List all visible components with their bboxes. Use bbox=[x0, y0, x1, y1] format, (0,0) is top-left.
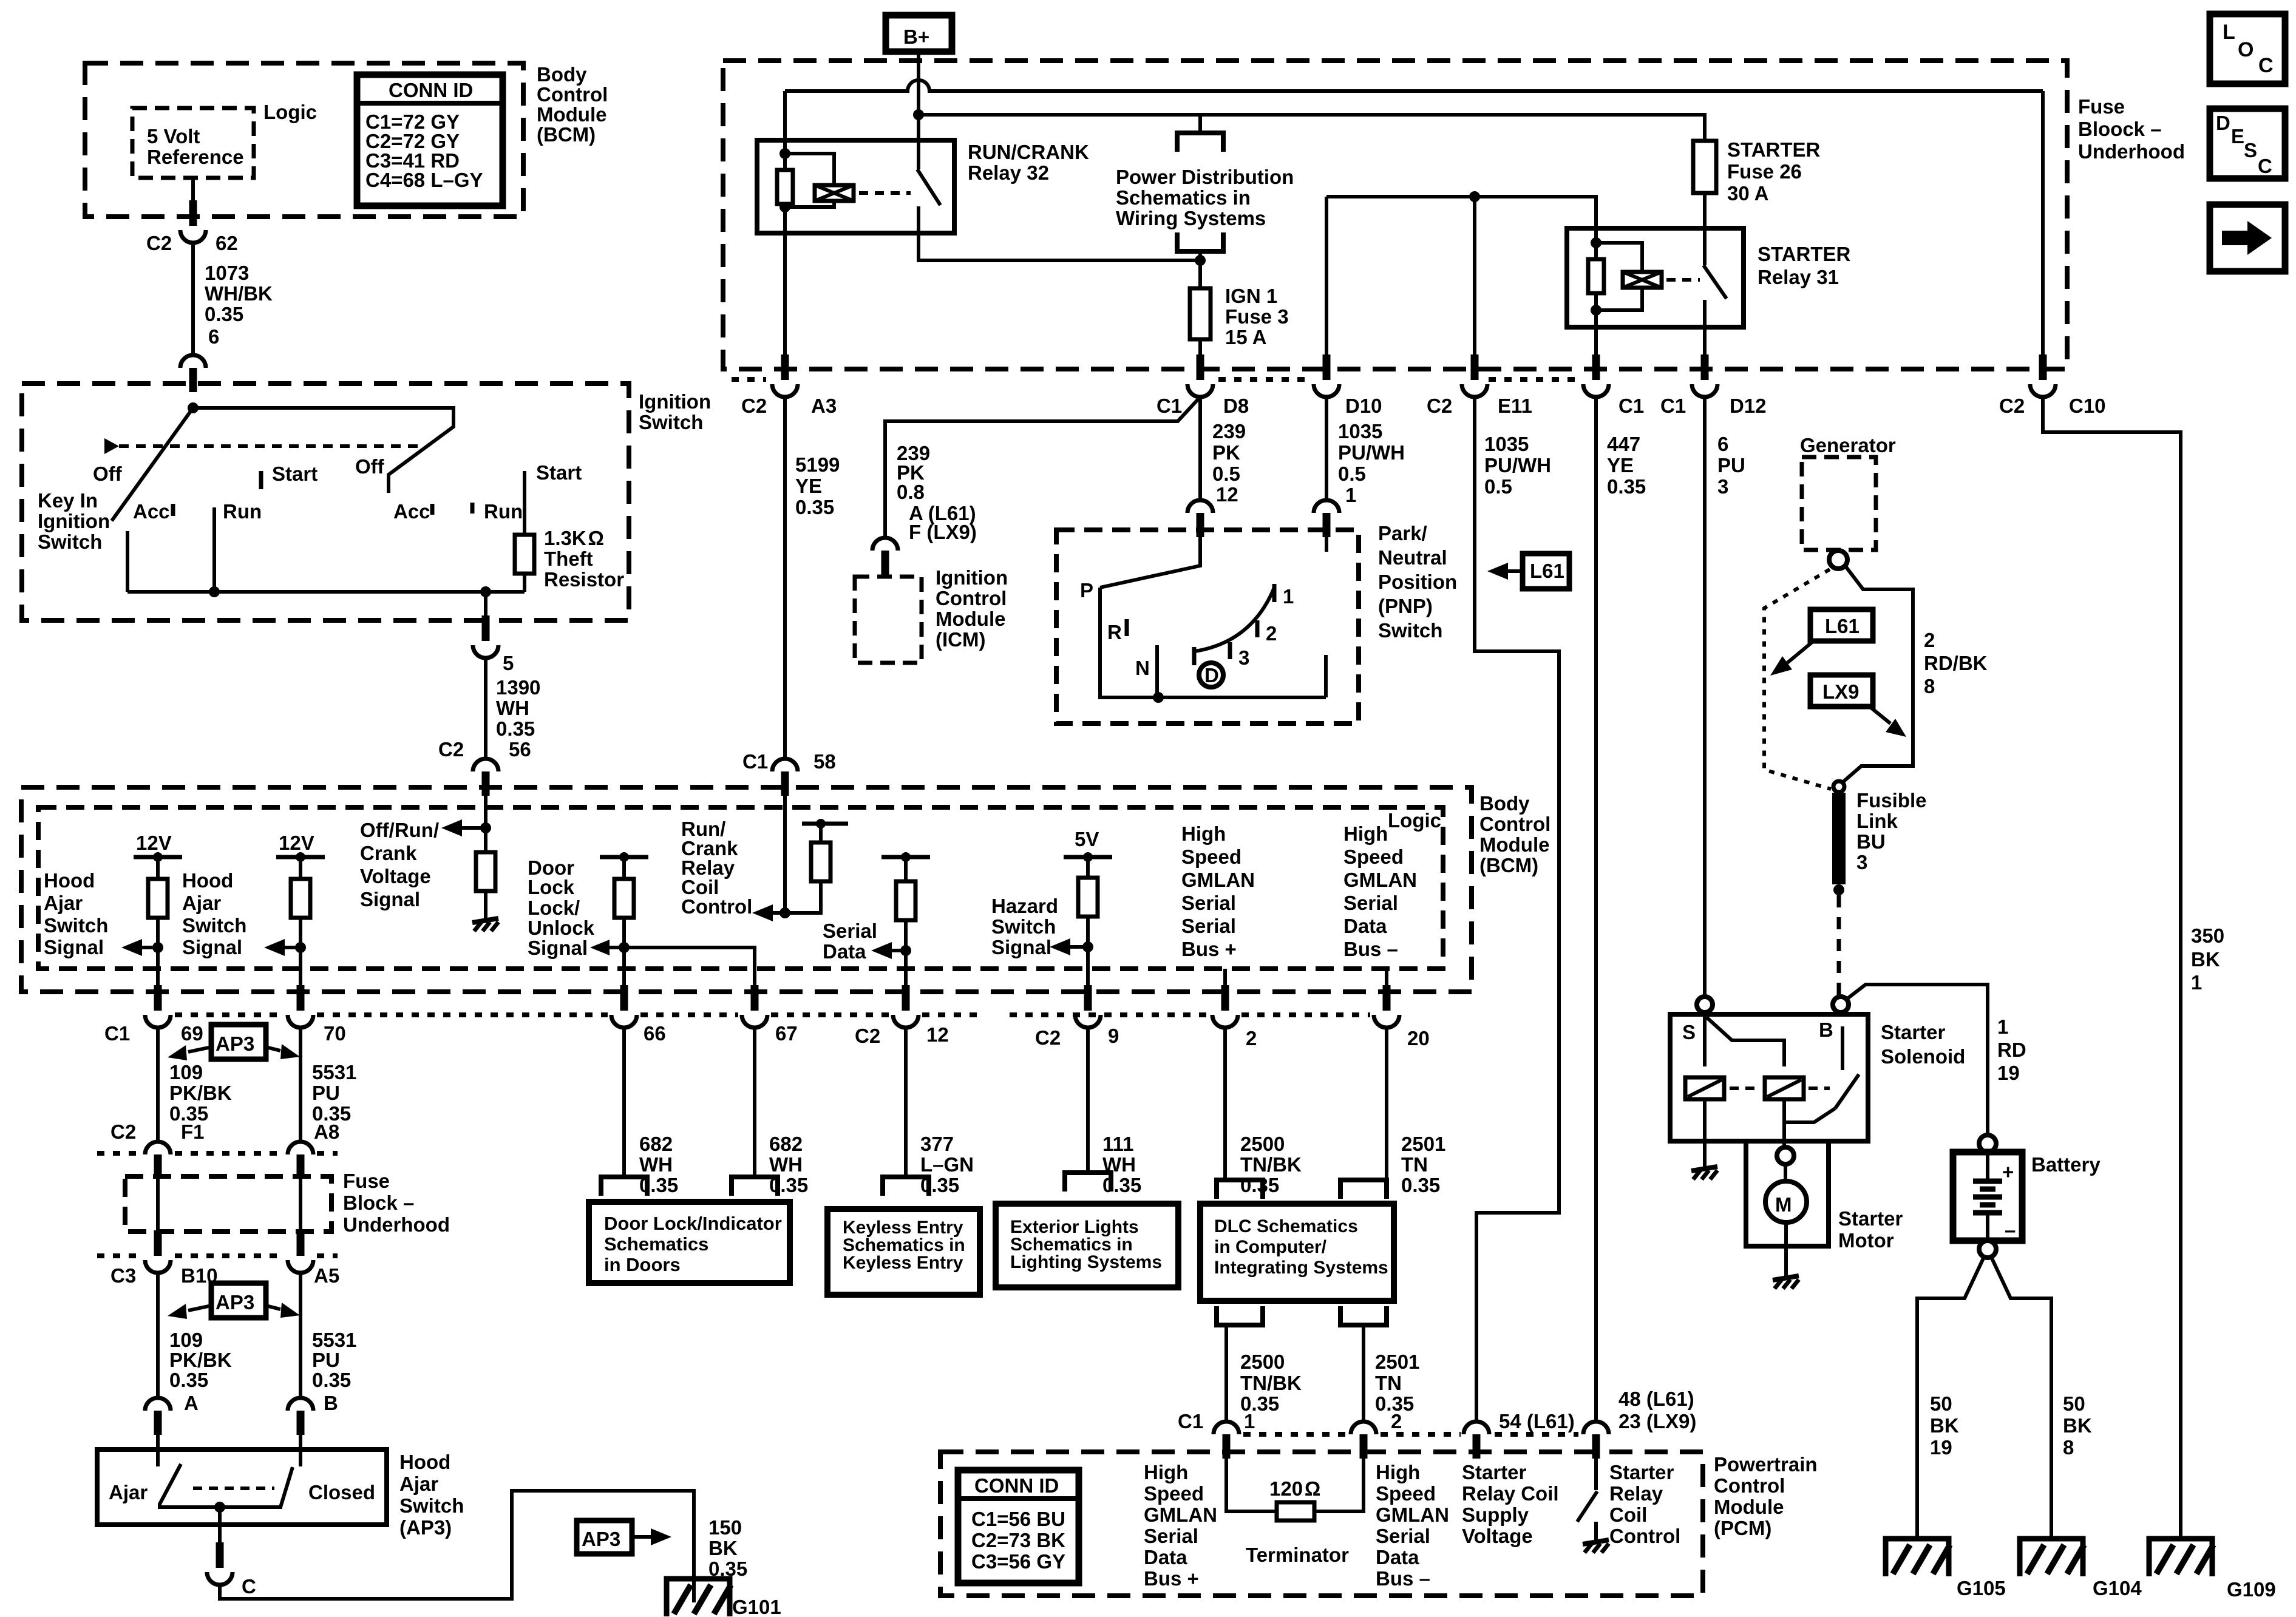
switch blade bbox=[1577, 1491, 1597, 1522]
connector pin B bbox=[288, 1398, 313, 1435]
svg-text:Switch: Switch bbox=[639, 411, 703, 433]
svg-text:8: 8 bbox=[1924, 675, 1935, 697]
node B+ / IGN feed junction bbox=[913, 109, 924, 120]
svg-text:D10: D10 bbox=[1345, 395, 1382, 417]
svg-text:PK/BK: PK/BK bbox=[169, 1349, 232, 1371]
svg-text:0.35: 0.35 bbox=[795, 496, 834, 518]
coil ground wire bbox=[1703, 1099, 1707, 1167]
svg-text:F1: F1 bbox=[181, 1120, 205, 1143]
svg-text:A5: A5 bbox=[314, 1264, 339, 1287]
svg-text:54 (L61): 54 (L61) bbox=[1499, 1410, 1575, 1432]
svg-text:Control: Control bbox=[537, 83, 608, 106]
svg-text:Ajar: Ajar bbox=[399, 1473, 438, 1495]
svg-text:D: D bbox=[2216, 112, 2230, 134]
svg-text:0.5: 0.5 bbox=[1212, 463, 1240, 485]
svg-text:Door Lock/Indicator: Door Lock/Indicator bbox=[604, 1213, 782, 1234]
serial data arrow bbox=[871, 942, 906, 959]
key-in switch blade bbox=[112, 408, 193, 521]
wire relay32 coil to A3 bbox=[783, 233, 787, 364]
svg-text:PU: PU bbox=[312, 1349, 340, 1371]
High Speed GMLAN Serial Serial Bus + label bbox=[1181, 822, 1255, 960]
svg-text:C2=73 BK: C2=73 BK bbox=[971, 1529, 1065, 1551]
svg-text:0.35: 0.35 bbox=[1240, 1174, 1279, 1196]
solenoid ground bbox=[1691, 1167, 1717, 1179]
hood ajar pullup resistor 2 bbox=[299, 857, 302, 879]
svg-text:L61: L61 bbox=[1825, 615, 1860, 637]
BCM dashed box bbox=[85, 63, 523, 217]
svg-text:Coil: Coil bbox=[1609, 1503, 1647, 1526]
svg-text:3: 3 bbox=[1238, 646, 1249, 669]
svg-text:A: A bbox=[184, 1392, 199, 1414]
svg-text:E11: E11 bbox=[1498, 395, 1532, 417]
receptacle 66 bbox=[601, 1177, 647, 1196]
svg-text:N: N bbox=[1135, 657, 1150, 679]
connector row dotted lines bbox=[732, 377, 766, 382]
battery positive terminal bbox=[1979, 1135, 1996, 1152]
svg-text:19: 19 bbox=[1997, 1062, 2020, 1084]
svg-text:66: 66 bbox=[644, 1022, 666, 1045]
svg-text:6: 6 bbox=[1717, 433, 1728, 455]
relay31 coil wire bbox=[1594, 228, 1598, 327]
svg-text:9: 9 bbox=[1108, 1025, 1119, 1047]
svg-text:C1: C1 bbox=[1178, 1410, 1203, 1432]
wire 5V reference to connector C2 bbox=[191, 178, 195, 202]
svg-text:G104: G104 bbox=[2093, 1577, 2142, 1599]
svg-text:C2: C2 bbox=[1035, 1026, 1061, 1049]
wire relay31 coil to C1 bbox=[1594, 327, 1598, 364]
svg-text:Schematics: Schematics bbox=[604, 1233, 708, 1255]
battery box bbox=[1953, 1152, 2022, 1241]
svg-text:58: 58 bbox=[813, 750, 836, 773]
svg-text:–: – bbox=[2005, 1219, 2016, 1241]
receptacle 2501 lower bbox=[1340, 1306, 1387, 1325]
svg-text:109: 109 bbox=[169, 1061, 203, 1083]
svg-text:12V: 12V bbox=[136, 832, 172, 854]
svg-text:1: 1 bbox=[1997, 1015, 2008, 1038]
svg-text:High: High bbox=[1144, 1461, 1188, 1483]
svg-text:Logic: Logic bbox=[263, 101, 317, 123]
svg-text:Hood: Hood bbox=[44, 869, 95, 892]
svg-text:STARTER: STARTER bbox=[1727, 138, 1821, 161]
svg-text:BK: BK bbox=[2063, 1414, 2092, 1437]
connector C2 pin E11 bbox=[1462, 354, 1487, 397]
wire relay31 coil supply bus bbox=[1326, 197, 1596, 228]
svg-text:2500: 2500 bbox=[1240, 1351, 1285, 1373]
svg-text:Data: Data bbox=[1376, 1546, 1419, 1568]
wire 2500 TN/BK upper bbox=[1223, 1028, 1227, 1180]
svg-text:Serial: Serial bbox=[1181, 892, 1236, 914]
svg-text:Lighting Systems: Lighting Systems bbox=[1010, 1252, 1162, 1272]
generator dashed box bbox=[1802, 457, 1876, 550]
svg-text:C: C bbox=[2258, 155, 2272, 177]
svg-text:Battery: Battery bbox=[2031, 1153, 2101, 1176]
svg-text:Switch: Switch bbox=[182, 914, 246, 937]
svg-text:Module: Module bbox=[537, 103, 606, 126]
ignition switch dashed box bbox=[22, 384, 629, 620]
svg-text:Serial: Serial bbox=[1376, 1525, 1430, 1547]
run/crank relay coil control arrow bbox=[752, 904, 785, 921]
AP3 splice tag 3 bbox=[577, 1520, 671, 1554]
node N junction bbox=[1153, 692, 1164, 703]
svg-text:1: 1 bbox=[2191, 971, 2202, 994]
start wire into theft resistor bbox=[523, 471, 526, 535]
svg-text:Solenoid: Solenoid bbox=[1881, 1045, 1965, 1068]
connector pin 5 bbox=[473, 615, 498, 658]
svg-text:5199: 5199 bbox=[795, 453, 840, 476]
svg-text:C10: C10 bbox=[2069, 395, 2106, 417]
C3/B10 connector row bbox=[97, 1253, 142, 1258]
wire C10 feed corner bbox=[2041, 91, 2045, 364]
svg-text:(AP3): (AP3) bbox=[399, 1516, 452, 1539]
S terminal bbox=[1697, 997, 1713, 1012]
svg-text:Ignition: Ignition bbox=[38, 510, 110, 532]
bus+ wire bbox=[1223, 969, 1227, 991]
AP3 arrow left 1 bbox=[168, 1045, 211, 1060]
svg-text:Switch: Switch bbox=[399, 1494, 464, 1517]
D10 contact stub bbox=[1325, 537, 1328, 552]
connector pin A5 bbox=[288, 1230, 313, 1273]
svg-text:682: 682 bbox=[639, 1133, 673, 1155]
svg-text:WH: WH bbox=[769, 1153, 803, 1176]
svg-text:1035: 1035 bbox=[1338, 420, 1382, 442]
wire D10 feed inside fuse block bbox=[1325, 197, 1328, 364]
door lock signal arrow bbox=[590, 940, 624, 955]
C2/F1 connector row bbox=[97, 1151, 142, 1156]
ground G105 bbox=[1886, 1539, 1950, 1576]
svg-text:5: 5 bbox=[503, 652, 514, 674]
relay31 switch contact bbox=[1703, 228, 1707, 265]
svg-text:Starter: Starter bbox=[1462, 1461, 1527, 1483]
wire generator bus with hop over B+ bbox=[785, 80, 2043, 91]
svg-text:C2: C2 bbox=[1999, 395, 2025, 417]
CONN ID table (BCM) bbox=[357, 75, 503, 206]
12V source 2 bbox=[276, 832, 325, 862]
svg-text:2: 2 bbox=[1924, 629, 1935, 651]
svg-text:5 Volt: 5 Volt bbox=[147, 125, 200, 147]
High Speed GMLAN Serial Data Bus - label bbox=[1343, 822, 1417, 960]
svg-text:Unlock: Unlock bbox=[528, 917, 595, 939]
off/run/crank ground bbox=[472, 918, 498, 931]
PCM connector row dotted bbox=[1243, 1432, 1348, 1437]
svg-text:Powertrain: Powertrain bbox=[1714, 1453, 1818, 1476]
svg-text:Crank: Crank bbox=[360, 842, 417, 864]
svg-text:Signal: Signal bbox=[182, 936, 242, 958]
svg-text:Ajar: Ajar bbox=[109, 1481, 148, 1503]
wire 2501 TN 0.35 lower bbox=[1362, 1325, 1365, 1422]
svg-text:0.35: 0.35 bbox=[496, 717, 535, 740]
svg-text:Theft: Theft bbox=[544, 547, 593, 570]
svg-text:69: 69 bbox=[181, 1022, 203, 1045]
Starter Relay Coil Supply Voltage label bbox=[1462, 1461, 1559, 1547]
svg-text:TN: TN bbox=[1401, 1153, 1428, 1176]
PCM dashed box bbox=[940, 1452, 1703, 1596]
Off/Run/Crank Voltage Signal label bbox=[360, 819, 439, 910]
svg-text:C1: C1 bbox=[1156, 395, 1182, 417]
svg-text:Speed: Speed bbox=[1181, 846, 1241, 868]
wire 447 YE 0.35 (relay31 coil to PCM 48/23) bbox=[1594, 397, 1598, 1422]
AP3 arrow left 2 bbox=[168, 1304, 211, 1319]
wire relay32 coil feed corner bbox=[783, 91, 787, 140]
svg-text:2: 2 bbox=[1246, 1027, 1257, 1049]
svg-text:Ajar: Ajar bbox=[182, 892, 221, 914]
svg-text:Signal: Signal bbox=[528, 937, 588, 959]
hood switch blade ajar bbox=[160, 1464, 282, 1507]
svg-text:(PNP): (PNP) bbox=[1378, 595, 1433, 617]
svg-text:Voltage: Voltage bbox=[1462, 1525, 1533, 1547]
svg-text:Control: Control bbox=[1609, 1525, 1680, 1547]
connector C2 pin 62 bbox=[180, 200, 206, 243]
svg-text:RUN/CRANK: RUN/CRANK bbox=[968, 141, 1089, 163]
svg-text:0.35: 0.35 bbox=[1607, 475, 1646, 498]
svg-text:Ignition: Ignition bbox=[639, 390, 711, 413]
Ignition Control Module (ICM) dashed box bbox=[855, 577, 922, 663]
svg-text:STARTER: STARTER bbox=[1758, 243, 1851, 265]
svg-text:Speed: Speed bbox=[1144, 1482, 1204, 1505]
selector arc bbox=[1195, 588, 1274, 651]
svg-text:AP3: AP3 bbox=[216, 1291, 254, 1314]
svg-text:C: C bbox=[2258, 54, 2274, 77]
svg-text:C1=56 BU: C1=56 BU bbox=[971, 1508, 1065, 1530]
svg-text:0.8: 0.8 bbox=[897, 481, 925, 503]
svg-text:Fuse 3: Fuse 3 bbox=[1225, 305, 1289, 328]
svg-text:GMLAN: GMLAN bbox=[1376, 1503, 1449, 1526]
relay32 coil resistor bbox=[777, 170, 793, 204]
wire pin12 to P contact bbox=[1100, 537, 1200, 588]
wire 1 RD 19 (B to battery) bbox=[1847, 985, 1988, 1135]
wire 50 BK 19 bbox=[1930, 1392, 1959, 1459]
connector C2 pin C10 bbox=[2030, 354, 2056, 397]
wire 109 PK/BK 0.35 lower bbox=[156, 1273, 160, 1398]
wire 2501 TN upper bbox=[1385, 1028, 1388, 1180]
svg-text:0.35: 0.35 bbox=[1401, 1174, 1440, 1196]
svg-text:Body: Body bbox=[1479, 792, 1530, 815]
wire to motor contact bbox=[1782, 1099, 1786, 1147]
svg-text:2500: 2500 bbox=[1240, 1133, 1285, 1155]
svg-text:TN/BK: TN/BK bbox=[1240, 1153, 1302, 1176]
High Speed GMLAN Serial Data Bus + label (PCM) bbox=[1144, 1461, 1217, 1590]
Starter Relay Coil Control label bbox=[1609, 1461, 1680, 1547]
svg-text:62: 62 bbox=[216, 232, 238, 254]
svg-text:+: + bbox=[2002, 1161, 2014, 1183]
svg-text:109: 109 bbox=[169, 1329, 203, 1351]
N contact bbox=[1155, 645, 1159, 697]
svg-text:(BCM): (BCM) bbox=[537, 123, 596, 146]
svg-text:Resistor: Resistor bbox=[544, 568, 624, 591]
svg-text:Terminator: Terminator bbox=[1246, 1544, 1349, 1566]
5V source bbox=[1064, 828, 1112, 862]
svg-text:E: E bbox=[2231, 125, 2244, 147]
dashed wire fusible link to B bbox=[1837, 895, 1841, 996]
position tick 3 bbox=[1228, 642, 1232, 659]
svg-text:Hazard: Hazard bbox=[991, 895, 1058, 917]
Hood Ajar Switch Signal label 1 bbox=[44, 869, 108, 958]
connector pin 66 bbox=[611, 985, 637, 1028]
svg-text:2501: 2501 bbox=[1375, 1351, 1419, 1373]
ground G109 bbox=[2149, 1539, 2213, 1576]
svg-text:Wiring Systems: Wiring Systems bbox=[1116, 207, 1266, 229]
svg-text:B: B bbox=[1819, 1019, 1833, 1041]
svg-text:Reference: Reference bbox=[147, 146, 244, 168]
svg-text:70: 70 bbox=[324, 1022, 346, 1045]
svg-text:Module: Module bbox=[1479, 833, 1549, 856]
svg-text:1390: 1390 bbox=[496, 676, 540, 699]
position tick 2 bbox=[1255, 620, 1260, 637]
svg-text:120 Ω: 120 Ω bbox=[1269, 1477, 1320, 1500]
svg-text:Starter: Starter bbox=[1881, 1021, 1946, 1043]
key actuator arrow bbox=[104, 438, 119, 454]
B contact stub bbox=[1841, 1026, 1844, 1070]
node hood ajar 2 bbox=[295, 942, 306, 953]
svg-text:PK/BK: PK/BK bbox=[169, 1082, 232, 1104]
svg-text:C2: C2 bbox=[110, 1120, 136, 1143]
fusible link top node bbox=[1833, 781, 1844, 792]
svg-text:Block –: Block – bbox=[343, 1192, 414, 1214]
svg-text:CONN ID: CONN ID bbox=[974, 1474, 1059, 1497]
svg-text:Lock/: Lock/ bbox=[528, 897, 580, 919]
svg-text:B: B bbox=[324, 1392, 338, 1414]
svg-text:Off/Run/: Off/Run/ bbox=[360, 819, 439, 841]
DESC box bbox=[2210, 109, 2285, 178]
relay31 coil branch bbox=[1596, 243, 1642, 273]
wire through fuse block 1 bbox=[156, 1179, 160, 1232]
svg-text:RD/BK: RD/BK bbox=[1924, 652, 1988, 674]
svg-text:48 (L61): 48 (L61) bbox=[1618, 1388, 1694, 1410]
relay31 coil resistor bbox=[1588, 259, 1604, 293]
STARTER Relay 31 box bbox=[1567, 228, 1744, 327]
svg-text:D12: D12 bbox=[1730, 395, 1767, 417]
svg-text:Start: Start bbox=[536, 461, 582, 484]
svg-text:1: 1 bbox=[1283, 585, 1294, 608]
connector pin 20 bbox=[1374, 985, 1399, 1028]
svg-text:YE: YE bbox=[1607, 454, 1634, 476]
AP3 splice tag 2 bbox=[211, 1283, 266, 1318]
relay31 switch blade bbox=[1703, 265, 1727, 299]
run/crank coil control resistor bbox=[819, 824, 823, 842]
S coil wire bbox=[1703, 1012, 1707, 1066]
wire B+ feed bbox=[917, 52, 920, 140]
relay32 switch contact bbox=[917, 140, 920, 169]
svg-text:12: 12 bbox=[926, 1023, 949, 1046]
svg-text:High: High bbox=[1343, 822, 1388, 845]
svg-text:in Computer/: in Computer/ bbox=[1214, 1237, 1327, 1257]
svg-text:Serial: Serial bbox=[1343, 892, 1398, 914]
svg-text:Serial: Serial bbox=[1144, 1525, 1198, 1547]
svg-text:F (LX9): F (LX9) bbox=[909, 521, 977, 543]
svg-text:19: 19 bbox=[1930, 1436, 1952, 1459]
pull-in winding bbox=[1685, 1077, 1724, 1099]
receptacle 2500 lower bbox=[1217, 1306, 1263, 1325]
wire 239 PK 0.8 branch to ICM bbox=[885, 397, 1200, 538]
svg-text:GMLAN: GMLAN bbox=[1181, 869, 1255, 891]
svg-text:M: M bbox=[1775, 1193, 1792, 1216]
connector C2 pin 9 bbox=[1075, 985, 1101, 1028]
relay32 coil branch bbox=[785, 154, 834, 186]
bus- wire bbox=[1385, 969, 1388, 991]
node door lock signal bbox=[619, 942, 630, 953]
svg-text:Off: Off bbox=[93, 463, 123, 485]
svg-text:3: 3 bbox=[1856, 851, 1867, 873]
connector C1 pin D10 bbox=[1314, 354, 1339, 397]
node hazard bbox=[1082, 941, 1093, 952]
off/run/crank arrow bbox=[441, 819, 486, 836]
AP3 splice tag 1 bbox=[211, 1025, 266, 1059]
connector C1 (447) bbox=[1583, 354, 1609, 397]
svg-text:WH: WH bbox=[496, 697, 529, 719]
svg-text:Off: Off bbox=[355, 455, 385, 478]
svg-text:Closed: Closed bbox=[308, 1481, 375, 1503]
svg-text:Switch: Switch bbox=[991, 915, 1056, 938]
PNP dashed box bbox=[1056, 530, 1359, 724]
wire switch common out bbox=[218, 1507, 222, 1544]
wire 5531 PU 0.35 upper bbox=[299, 1028, 302, 1142]
Hazard Switch Signal label bbox=[991, 895, 1058, 958]
svg-text:Position: Position bbox=[1378, 571, 1457, 593]
svg-text:Keyless Entry: Keyless Entry bbox=[843, 1253, 963, 1273]
svg-text:Speed: Speed bbox=[1376, 1482, 1436, 1505]
receptacle 9 bbox=[1065, 1173, 1111, 1192]
wire 111 WH 0.35 bbox=[1086, 1028, 1090, 1173]
battery cells bbox=[1973, 1152, 2016, 1241]
svg-text:0.35: 0.35 bbox=[1102, 1174, 1141, 1196]
wire through fuse block 2 bbox=[299, 1179, 302, 1232]
Fuse Block - Underhood small dashed box bbox=[125, 1176, 331, 1232]
relay32 coil winding bbox=[815, 185, 854, 201]
R contact bbox=[1125, 619, 1129, 636]
svg-text:111: 111 bbox=[1102, 1133, 1133, 1155]
receptacle 12 bbox=[883, 1177, 929, 1196]
svg-text:PK: PK bbox=[1212, 441, 1240, 464]
svg-text:PU: PU bbox=[1717, 454, 1745, 476]
svg-text:Relay: Relay bbox=[1609, 1482, 1663, 1505]
svg-text:A3: A3 bbox=[811, 395, 837, 417]
motor M bbox=[1765, 1181, 1807, 1222]
hood ajar pullup resistor 1 bbox=[156, 857, 160, 879]
svg-text:LX9: LX9 bbox=[1822, 680, 1860, 703]
wire 50 BK 8 bbox=[2063, 1392, 2092, 1459]
svg-text:Bus –: Bus – bbox=[1376, 1567, 1430, 1590]
svg-text:in Doors: in Doors bbox=[604, 1254, 681, 1275]
svg-text:Control: Control bbox=[681, 895, 752, 918]
svg-text:C2: C2 bbox=[146, 232, 172, 254]
svg-text:DLC Schematics: DLC Schematics bbox=[1214, 1216, 1358, 1236]
svg-text:Integrating Systems: Integrating Systems bbox=[1214, 1258, 1388, 1278]
svg-text:CONN ID: CONN ID bbox=[389, 79, 473, 101]
hood ajar signal arrow 2 bbox=[264, 939, 301, 956]
connector pin A/F into ICM bbox=[872, 538, 898, 575]
L61 option box bbox=[1810, 609, 1873, 641]
svg-text:Generator: Generator bbox=[1800, 434, 1896, 456]
svg-text:2: 2 bbox=[1266, 622, 1277, 645]
svg-text:Voltage: Voltage bbox=[360, 865, 431, 887]
connector pin 48/23 bbox=[1618, 1388, 1696, 1432]
svg-text:Module: Module bbox=[936, 608, 1005, 630]
svg-text:1: 1 bbox=[1345, 484, 1356, 506]
svg-text:1: 1 bbox=[1244, 1410, 1255, 1432]
svg-text:S: S bbox=[1682, 1021, 1696, 1043]
hazard arrow bbox=[1050, 938, 1088, 955]
connector C1 pin 69 bbox=[145, 985, 171, 1028]
svg-text:BK: BK bbox=[2191, 948, 2220, 971]
wire 682 WH 0.35 (66) bbox=[622, 1028, 626, 1177]
svg-text:C2: C2 bbox=[855, 1025, 880, 1047]
svg-text:GMLAN: GMLAN bbox=[1144, 1503, 1217, 1526]
svg-text:Switch: Switch bbox=[38, 531, 102, 553]
svg-text:Run: Run bbox=[223, 500, 262, 523]
svg-text:1073: 1073 bbox=[205, 262, 249, 284]
AP3 arrow right 2 bbox=[266, 1303, 300, 1318]
svg-text:2: 2 bbox=[1391, 1410, 1402, 1432]
svg-text:AP3: AP3 bbox=[216, 1032, 254, 1055]
